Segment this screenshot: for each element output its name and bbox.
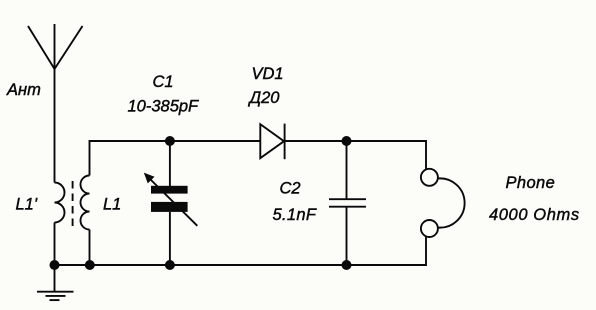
wire phone bottom lead bbox=[347, 236, 427, 265]
phone earpiece arc bbox=[438, 178, 465, 227]
svg-text:C2: C2 bbox=[280, 179, 301, 197]
wire C1 top lead bbox=[169, 141, 171, 186]
svg-text:4000 Ohms: 4000 Ohms bbox=[489, 206, 580, 224]
capacitor C2 bbox=[329, 199, 366, 207]
svg-text:C1: C1 bbox=[153, 73, 174, 91]
wire L1 top lead bbox=[90, 141, 171, 176]
variable capacitor C1 top plate bbox=[151, 186, 188, 194]
node bus L1' bbox=[50, 260, 60, 270]
node bus L1 bbox=[85, 260, 95, 270]
wire top bus left bbox=[170, 140, 260, 142]
svg-text:5.1nF: 5.1nF bbox=[273, 206, 317, 224]
wire L1 bottom lead bbox=[89, 230, 91, 266]
transformer core bbox=[72, 181, 74, 228]
C1 adjustment arrow bbox=[144, 173, 198, 226]
svg-text:Ант: Ант bbox=[6, 81, 41, 99]
node C1 top bbox=[165, 136, 175, 146]
inductor L1 bbox=[81, 176, 90, 230]
phone terminal bottom bbox=[421, 220, 438, 237]
svg-text:L1: L1 bbox=[103, 196, 121, 214]
svg-text:10-385pF: 10-385pF bbox=[128, 98, 200, 116]
phone terminal top bbox=[421, 169, 438, 186]
diode VD1 bbox=[260, 124, 284, 160]
node bus C1 bbox=[165, 260, 175, 270]
wire top bus right bbox=[285, 141, 426, 170]
node C2 top bbox=[342, 136, 352, 146]
variable capacitor C1 bottom plate bbox=[151, 202, 188, 212]
node bus C2 bbox=[342, 260, 352, 270]
svg-text:VD1: VD1 bbox=[252, 65, 284, 83]
svg-text:Д20: Д20 bbox=[248, 89, 281, 107]
svg-text:Phone: Phone bbox=[506, 174, 556, 192]
ground bbox=[37, 265, 74, 300]
wire C1 bottom lead bbox=[169, 212, 171, 265]
antenna Ант bbox=[28, 24, 83, 69]
wire L1' to bus bbox=[54, 223, 56, 266]
wire antenna to L1' bbox=[54, 68, 56, 183]
svg-text:L1': L1' bbox=[16, 196, 38, 214]
bottom bus wire bbox=[55, 264, 347, 266]
wire C2 bottom lead bbox=[346, 207, 348, 265]
wire C2 top lead bbox=[346, 141, 348, 199]
inductor L1' bbox=[55, 183, 65, 223]
